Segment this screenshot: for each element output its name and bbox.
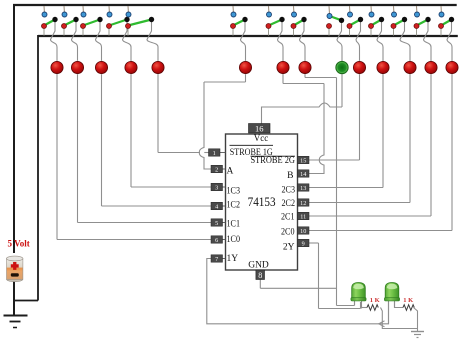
svg-text:1 K: 1 K: [403, 297, 413, 304]
svg-text:4: 4: [215, 203, 218, 210]
svg-text:1C0: 1C0: [227, 235, 241, 245]
svg-text:74153: 74153: [248, 195, 276, 209]
svg-text:12: 12: [300, 200, 306, 207]
svg-text:15: 15: [300, 157, 306, 164]
svg-text:A: A: [227, 167, 234, 177]
svg-text:1 K: 1 K: [370, 297, 380, 304]
svg-text:1C2: 1C2: [227, 200, 241, 210]
svg-text:14: 14: [300, 171, 306, 178]
svg-text:7: 7: [215, 256, 218, 263]
svg-text:6: 6: [215, 237, 218, 244]
svg-text:2: 2: [215, 166, 218, 173]
svg-text:2C3: 2C3: [282, 185, 296, 195]
svg-text:Vcc: Vcc: [254, 133, 269, 143]
svg-text:GND: GND: [248, 261, 269, 271]
svg-text:10: 10: [300, 228, 306, 235]
svg-text:13: 13: [300, 185, 306, 192]
svg-text:STROBE 2G: STROBE 2G: [251, 156, 296, 166]
svg-text:1Y: 1Y: [227, 254, 239, 264]
svg-text:1C3: 1C3: [227, 186, 241, 196]
svg-text:2C2: 2C2: [282, 199, 296, 209]
svg-text:5 Volt: 5 Volt: [8, 239, 30, 249]
svg-text:1C1: 1C1: [227, 220, 241, 230]
svg-text:9: 9: [302, 240, 305, 247]
svg-text:11: 11: [300, 213, 306, 220]
svg-text:2Y: 2Y: [283, 243, 295, 253]
svg-text:2C1: 2C1: [281, 212, 295, 222]
svg-text:1: 1: [213, 150, 216, 157]
svg-text:8: 8: [258, 271, 262, 280]
svg-text:2C0: 2C0: [281, 227, 295, 237]
svg-text:B: B: [287, 171, 293, 181]
svg-text:5: 5: [215, 220, 218, 227]
svg-text:3: 3: [215, 184, 218, 191]
